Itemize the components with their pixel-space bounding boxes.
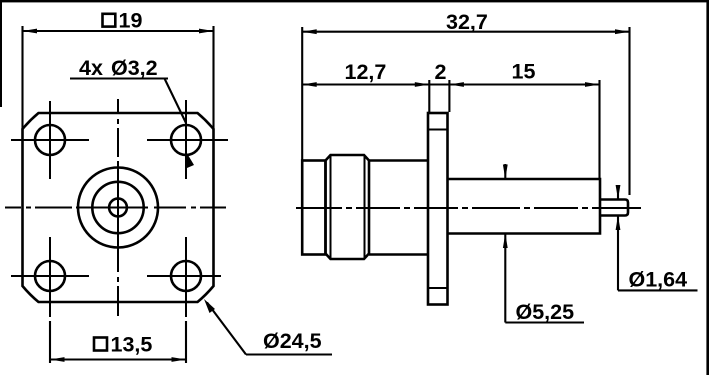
- svg-text:19: 19: [119, 9, 143, 33]
- svg-text:Ø24,5: Ø24,5: [263, 329, 322, 353]
- label dia5,25 underline: [505, 321, 584, 323]
- dimension row2 extension at shaft end: [598, 80, 600, 178]
- svg-text:2: 2: [435, 60, 447, 84]
- centerline vertical (front view): [117, 99, 119, 316]
- frame left border: [0, 0, 2, 107]
- svg-text:32,7: 32,7: [446, 10, 488, 34]
- dimension square19 extension lines: [23, 26, 214, 130]
- side view flange chamfer line bottom: [428, 287, 448, 289]
- dimension square13,5 line: [50, 358, 186, 360]
- dimension 32,7 extension left: [301, 27, 303, 160]
- svg-text:4x: 4x: [79, 56, 103, 80]
- side view nut facet line left: [330, 155, 332, 259]
- svg-text:13,5: 13,5: [111, 333, 153, 357]
- label 4x dia3,2 leader: [70, 79, 186, 124]
- side view coupling nut: [326, 155, 370, 259]
- side view shaft: [448, 179, 601, 234]
- dimension square19 line: [23, 30, 214, 32]
- dimension 12,7 arrow right: [415, 82, 430, 87]
- dimension square13,5 arrow right: [172, 357, 187, 362]
- dimension square13,5 extension lines: [50, 321, 186, 363]
- svg-text:Ø1,64: Ø1,64: [629, 268, 688, 292]
- dimension square13,5 square symbol: [94, 338, 107, 351]
- crosshair hole bottom-right: [147, 237, 221, 317]
- side view pin: [600, 200, 628, 216]
- crosshair hole top-left: [11, 101, 89, 179]
- flange outline (front view): [23, 113, 214, 302]
- centerline horizontal (front view): [5, 207, 226, 209]
- label dia24,5 underline: [246, 353, 332, 355]
- dimension square19 arrow right: [199, 29, 214, 34]
- label dia1,64 upper arrow: [617, 186, 619, 199]
- dimension 15 arrow right: [585, 82, 600, 87]
- crosshair hole bottom-left: [11, 237, 89, 317]
- dimension 32,7 arrow left: [302, 29, 317, 34]
- dimension row2 extension at flange left: [428, 80, 430, 112]
- label 4x dia3,2 arrowhead: [185, 150, 194, 168]
- mounting hole bottom-left: [35, 261, 65, 291]
- side view nut facet line right: [364, 155, 366, 259]
- dimension 32,7 extension right: [628, 27, 630, 195]
- connector middle circle: [92, 182, 143, 233]
- side view body rear section: [302, 161, 325, 255]
- dimension 32,7 line: [302, 31, 629, 33]
- mounting hole top-left: [35, 125, 65, 155]
- dimension 32,7 arrow right: [615, 29, 630, 34]
- svg-text:Ø5,25: Ø5,25: [516, 300, 575, 324]
- side view mid body: [369, 161, 428, 255]
- dimension square19 square symbol: [103, 14, 116, 27]
- svg-text:12,7: 12,7: [345, 60, 387, 84]
- dimension square13,5 arrow left: [50, 357, 65, 362]
- mounting hole bottom-right: [171, 261, 201, 291]
- frame right border: [706, 0, 709, 375]
- label dia1,64 underline: [618, 289, 698, 291]
- connector inner circle: [109, 199, 127, 217]
- mounting hole top-right: [171, 125, 201, 155]
- label dia5,25 upper arrow: [504, 164, 506, 178]
- dimension square19 arrow left: [23, 29, 38, 34]
- dimension row2 line: [302, 83, 599, 85]
- label dia1,64 lower leader: [617, 216, 619, 290]
- dimension 12,7 arrow left: [302, 82, 317, 87]
- crosshair hole top-right: [147, 100, 228, 179]
- svg-text:Ø3,2: Ø3,2: [111, 56, 158, 80]
- connector outer circle: [78, 168, 158, 248]
- side view flange chamfer line top: [428, 129, 448, 131]
- label dia5,25 lower leader: [504, 234, 506, 323]
- dimension 2 arrow outside: [449, 82, 464, 87]
- centerline horizontal (side view): [296, 207, 641, 209]
- label dia24,5 leader: [207, 303, 246, 355]
- label dia24,5 arrowhead: [204, 299, 215, 313]
- svg-text:15: 15: [512, 60, 536, 84]
- frame top border: [0, 0, 709, 2]
- dimension row2 extension at flange right: [448, 80, 450, 112]
- side view flange plate: [428, 113, 448, 305]
